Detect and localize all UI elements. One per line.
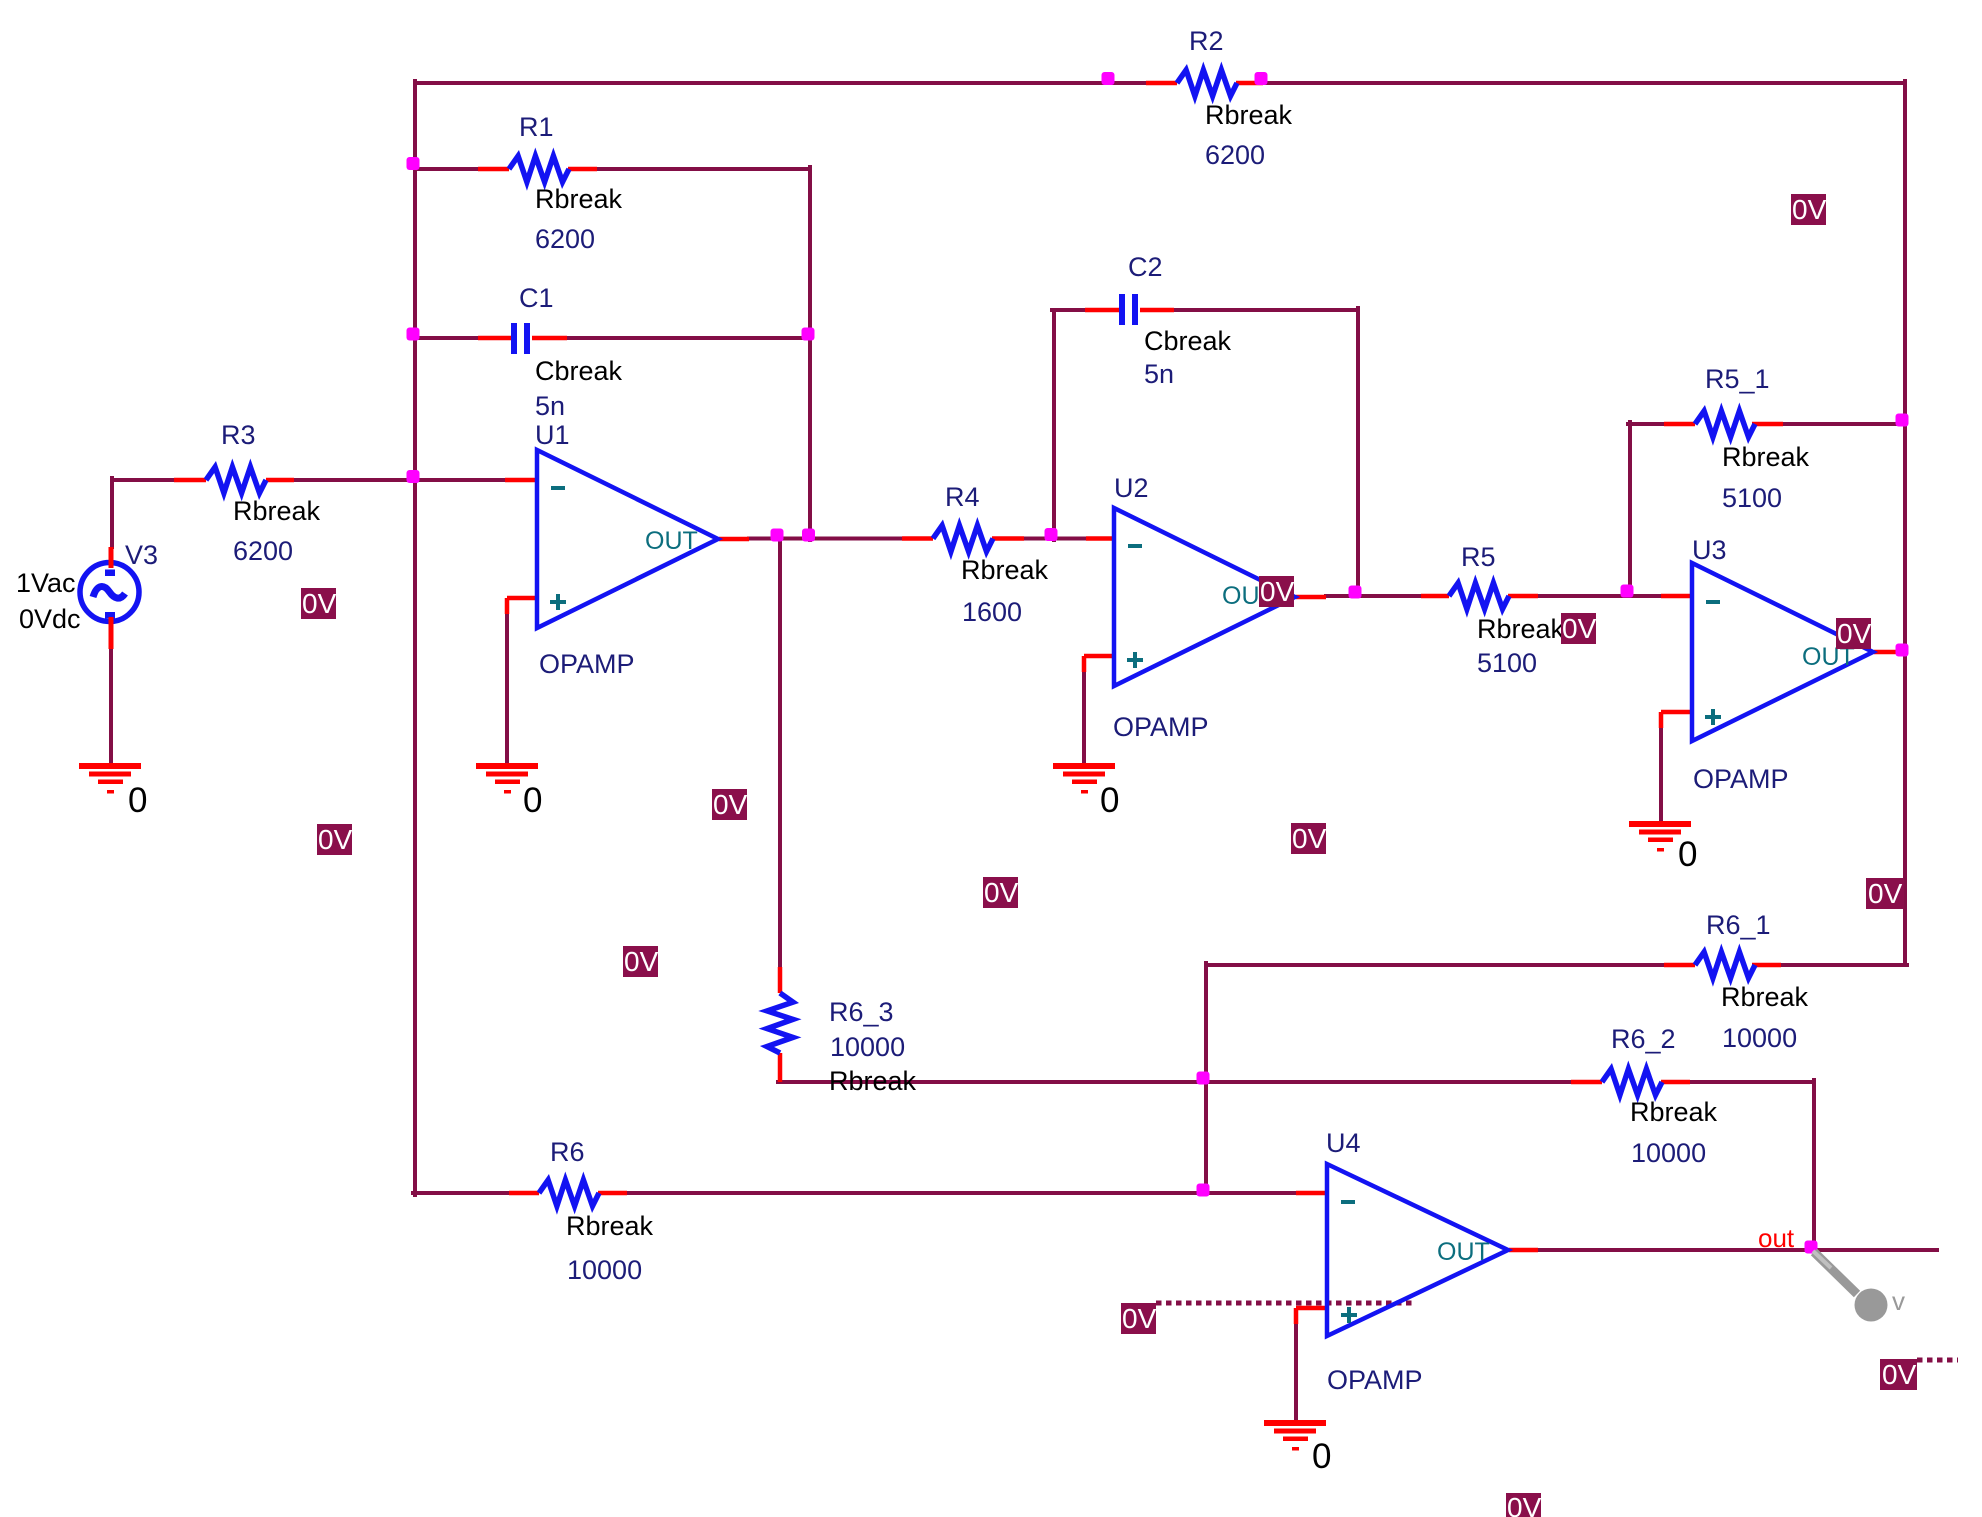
wire U4 plus to ground: [1294, 1324, 1298, 1422]
pin label U2 plus: [1127, 652, 1143, 668]
junction R5_1 x right vertical: [1896, 414, 1909, 427]
bias label 0V left bottom: [317, 824, 353, 855]
pin lead R6_2 right: [1661, 1080, 1690, 1085]
svg-text:0V: 0V: [624, 946, 659, 977]
bias label 0V top right: [1791, 194, 1827, 225]
pin lead R6 right: [598, 1191, 627, 1196]
svg-text:5100: 5100: [1722, 483, 1782, 513]
resistor R1: [509, 156, 569, 182]
svg-text:10000: 10000: [567, 1255, 642, 1285]
svg-text:Rbreak: Rbreak: [535, 184, 623, 214]
resistor R5: [1449, 583, 1509, 609]
svg-text:0V: 0V: [1837, 618, 1872, 649]
wire U1 out to R4: [749, 537, 902, 541]
svg-text:1600: 1600: [962, 597, 1022, 627]
svg-text:out: out: [1758, 1223, 1795, 1253]
bias label 0V right of R5: [1561, 613, 1597, 644]
pin lead U2 out: [1296, 595, 1326, 600]
svg-text:R6: R6: [550, 1137, 585, 1167]
wire V3 top vertical: [110, 478, 114, 547]
pin lead R5_1 right: [1752, 422, 1783, 427]
pin label U1 minus: [551, 486, 565, 490]
pin lead R5 left: [1421, 594, 1449, 599]
pin lead R6_3 top: [778, 967, 783, 993]
wire R6_1 right: [1781, 963, 1907, 967]
svg-text:0V: 0V: [318, 824, 353, 855]
pin lead U4 minus: [1296, 1191, 1327, 1196]
resistor R5_1: [1695, 411, 1755, 437]
svg-text:6200: 6200: [1205, 140, 1265, 170]
wire C2 left stub: [1052, 308, 1085, 312]
pin lead U3 minus: [1661, 594, 1692, 599]
resistor R2: [1177, 70, 1237, 96]
svg-text:Rbreak: Rbreak: [1477, 614, 1565, 644]
svg-text:10000: 10000: [1722, 1023, 1797, 1053]
svg-text:0: 0: [128, 781, 147, 820]
svg-text:R6_1: R6_1: [1706, 910, 1771, 940]
junction U1 out x R6_3 branch: [771, 529, 784, 542]
svg-text:R6_3: R6_3: [829, 997, 894, 1027]
resistor R6: [539, 1180, 599, 1206]
pin label U2 minus: [1128, 544, 1142, 548]
wire R4 to U2 minus: [1024, 537, 1086, 541]
svg-text:R3: R3: [221, 420, 256, 450]
bias label 0V right middle: [1866, 878, 1904, 909]
pin lead R4 left: [902, 536, 933, 541]
resistor R6_3 vertical: [767, 993, 793, 1053]
wire U3 out stub: [1897, 650, 1905, 654]
pin lead U2 plus: [1084, 656, 1114, 672]
svg-text:Cbreak: Cbreak: [535, 356, 623, 386]
junction R2 right node: [1255, 72, 1268, 85]
pin lead U3 out: [1874, 650, 1899, 655]
svg-text:6200: 6200: [535, 224, 595, 254]
wire out row: [1538, 1248, 1937, 1252]
pin lead R6_3 bottom: [778, 1053, 783, 1082]
pin lead U4 plus: [1296, 1308, 1327, 1324]
wire U3 plus to ground: [1659, 728, 1663, 823]
svg-text:0V: 0V: [1260, 576, 1295, 607]
svg-text:0V: 0V: [1562, 613, 1597, 644]
wire R5_1 left stub: [1628, 422, 1664, 426]
svg-text:R1: R1: [519, 112, 554, 142]
wire U2 out to R5: [1326, 594, 1421, 598]
junction R6 row x R6_1 vertical: [1197, 1184, 1210, 1197]
svg-text:R2: R2: [1189, 26, 1224, 56]
svg-text:5n: 5n: [1144, 359, 1174, 389]
svg-text:0Vdc: 0Vdc: [19, 604, 81, 634]
bias label 0V below U2: [983, 877, 1019, 908]
junction U2 minus x C2 vertical: [1045, 528, 1058, 541]
pin lead U1 out: [719, 537, 749, 542]
wire R6 row right to U4 minus: [627, 1191, 1296, 1195]
wire R6_3 bottom row: [778, 1080, 1571, 1084]
resistor R6_2: [1602, 1069, 1662, 1095]
svg-text:OUT: OUT: [1437, 1238, 1490, 1266]
pin lead R6_1 left: [1664, 963, 1695, 968]
pin lead C2 left: [1085, 308, 1119, 313]
wire R6_1 left: [1206, 963, 1664, 967]
svg-text:Rbreak: Rbreak: [233, 496, 321, 526]
svg-text:0V: 0V: [1507, 1492, 1542, 1517]
bias label 0V near R3: [301, 588, 337, 619]
pin lead R1 left: [478, 167, 509, 172]
pin lead U4 out: [1509, 1248, 1538, 1253]
svg-text:R6_2: R6_2: [1611, 1024, 1676, 1054]
pin lead R6_1 right: [1752, 963, 1781, 968]
pin lead V3 top: [109, 547, 114, 568]
svg-text:V3: V3: [125, 540, 158, 570]
probe V marker: [1813, 1251, 1905, 1322]
svg-text:Rbreak: Rbreak: [1630, 1097, 1718, 1127]
svg-text:U2: U2: [1114, 473, 1149, 503]
junction C1 row x right vertical: [802, 328, 815, 341]
svg-text:C1: C1: [519, 283, 554, 313]
pin lead R4 right: [992, 536, 1024, 541]
wire top feedback row R2 right: [1260, 81, 1905, 85]
svg-text:Rbreak: Rbreak: [829, 1066, 917, 1096]
ground U3: [1629, 821, 1691, 852]
wire R1 left stub: [415, 167, 478, 171]
wire C1 left stub: [415, 336, 478, 340]
resistor R6_1: [1695, 952, 1755, 978]
svg-text:0: 0: [523, 781, 542, 820]
pin lead R5 right: [1508, 594, 1538, 599]
ground U1: [476, 763, 538, 794]
junction R2 left node: [1102, 72, 1115, 85]
capacitor C2 plates: [1119, 294, 1125, 325]
wire C2 left vertical: [1052, 310, 1056, 540]
dotted bias line U4 plus: [1156, 1301, 1413, 1306]
junction out node: [1805, 1241, 1818, 1254]
resistor R3: [206, 467, 266, 493]
bias label 0V below U2 ground: [1291, 823, 1327, 854]
svg-text:v: v: [1892, 1286, 1905, 1316]
svg-text:0V: 0V: [1792, 194, 1827, 225]
wire top feedback row R2 left: [415, 81, 1150, 85]
wire C2 right: [1174, 308, 1358, 312]
bias label 0V below left of R6_3: [623, 946, 659, 977]
wire R5_1 left vertical: [1628, 422, 1632, 596]
junction U1 out x R1C1 vertical: [802, 529, 815, 542]
op-amp U2: [1114, 508, 1295, 686]
wire branch to R6_3: [778, 539, 782, 968]
bias label 0V at U4 plus: [1121, 1303, 1157, 1334]
svg-text:R4: R4: [945, 482, 980, 512]
svg-text:Rbreak: Rbreak: [1205, 100, 1293, 130]
pin lead R6_2 left: [1571, 1080, 1602, 1085]
svg-text:0V: 0V: [713, 789, 748, 820]
svg-text:Cbreak: Cbreak: [1144, 326, 1232, 356]
svg-text:OPAMP: OPAMP: [1327, 1365, 1423, 1395]
svg-text:R5_1: R5_1: [1705, 364, 1770, 394]
wire V3 bottom to ground: [109, 649, 113, 765]
svg-text:U1: U1: [535, 420, 570, 450]
pin lead U1 plus: [507, 598, 537, 614]
pin lead R2 left: [1146, 81, 1177, 86]
svg-text:0V: 0V: [1882, 1359, 1917, 1390]
pin lead R6 left: [509, 1191, 539, 1196]
svg-text:Rbreak: Rbreak: [961, 555, 1049, 585]
op-amp U3: [1692, 563, 1873, 741]
bias label 0V at U2 out: [1259, 576, 1295, 607]
pin lead U2 minus: [1086, 536, 1114, 541]
junction left vertical x R1 row: [407, 157, 420, 170]
wire right vertical: [1903, 81, 1907, 965]
junction U3 out x right vertical: [1896, 644, 1909, 657]
wire R5_1 right: [1783, 422, 1905, 426]
pin label U3 minus: [1706, 600, 1720, 604]
svg-text:0V: 0V: [302, 588, 337, 619]
pin lead C1 left: [478, 336, 511, 341]
bias label 0V at U3 out: [1836, 618, 1872, 649]
svg-text:10000: 10000: [830, 1032, 905, 1062]
wire R1 right: [597, 167, 810, 171]
wire R6_2 right vertical: [1812, 1080, 1816, 1250]
resistor R4: [933, 526, 993, 552]
svg-text:0: 0: [1678, 835, 1697, 874]
svg-text:0V: 0V: [1122, 1303, 1157, 1334]
junction left vertical x C1 row: [407, 328, 420, 341]
svg-text:0: 0: [1100, 781, 1119, 820]
pin lead R3 left: [174, 478, 206, 483]
junction R6_23 row x R6_1 vertical: [1197, 1072, 1210, 1085]
dotted bias line bottom right: [1917, 1358, 1958, 1363]
wire U2 plus to ground: [1082, 672, 1086, 765]
pin label U4 plus: [1341, 1307, 1357, 1323]
bias label 0V bottom right: [1880, 1359, 1917, 1390]
wire U1 plus to ground: [505, 614, 509, 765]
svg-text:U4: U4: [1326, 1128, 1361, 1158]
wire C2 right vertical: [1356, 308, 1360, 596]
wire R6 row left: [413, 1191, 509, 1195]
wire C1 right: [567, 336, 810, 340]
bias label 0V below U1: [712, 789, 748, 820]
svg-text:Rbreak: Rbreak: [1722, 442, 1810, 472]
pin lead C2 right: [1140, 308, 1174, 313]
pin lead U3 plus: [1661, 712, 1692, 728]
wire vertical R6_1 to U4 minus: [1204, 963, 1208, 1193]
svg-text:1Vac: 1Vac: [16, 568, 76, 598]
svg-text:OPAMP: OPAMP: [1693, 764, 1789, 794]
svg-text:6200: 6200: [233, 536, 293, 566]
bias label 0V bottom center cut: [1506, 1492, 1542, 1517]
svg-text:5n: 5n: [535, 391, 565, 421]
wire R3 to U1 minus: [294, 478, 505, 482]
wire R5 to U3 minus: [1538, 594, 1661, 598]
wire R6_2 right: [1690, 1080, 1814, 1084]
pin lead R3 right: [266, 478, 294, 483]
svg-text:C2: C2: [1128, 252, 1163, 282]
svg-text:0V: 0V: [1292, 823, 1327, 854]
wire R1/C1 right vertical: [808, 167, 812, 540]
svg-text:OPAMP: OPAMP: [539, 649, 635, 679]
svg-text:Rbreak: Rbreak: [1721, 982, 1809, 1012]
op-amp U4: [1327, 1164, 1508, 1336]
capacitor C1 plates: [511, 323, 517, 354]
svg-text:U3: U3: [1692, 535, 1727, 565]
pin label U4 minus: [1341, 1200, 1355, 1204]
svg-text:OPAMP: OPAMP: [1113, 712, 1209, 742]
svg-text:0V: 0V: [984, 877, 1019, 908]
wire V3 to R3: [112, 478, 174, 482]
pin label U3 plus: [1705, 709, 1721, 725]
voltage source V3: [80, 547, 139, 649]
pin lead R1 right: [568, 167, 597, 172]
ground V3: [79, 763, 141, 794]
svg-text:OUT: OUT: [645, 527, 698, 555]
op-amp U1: [537, 450, 718, 628]
pin label U1 plus: [550, 594, 566, 610]
pin lead V3 bottom: [109, 617, 114, 649]
pin lead U1 minus: [505, 478, 537, 483]
wire left vertical: [413, 81, 417, 1195]
pin lead C1 right: [532, 336, 567, 341]
svg-text:0: 0: [1312, 1437, 1331, 1476]
svg-text:0V: 0V: [1868, 878, 1903, 909]
ground U2: [1053, 763, 1115, 794]
svg-text:5100: 5100: [1477, 648, 1537, 678]
ground U4: [1264, 1420, 1326, 1451]
svg-text:R5: R5: [1461, 542, 1496, 572]
pin lead R5_1 left: [1664, 422, 1695, 427]
svg-text:10000: 10000: [1631, 1138, 1706, 1168]
pin lead R2 right: [1236, 81, 1263, 86]
svg-text:Rbreak: Rbreak: [566, 1211, 654, 1241]
junction U2 out x C2 right vertical: [1349, 586, 1362, 599]
junction left vertical x R3 row: [407, 470, 420, 483]
junction R5 row x R5_1 vertical: [1621, 585, 1634, 598]
